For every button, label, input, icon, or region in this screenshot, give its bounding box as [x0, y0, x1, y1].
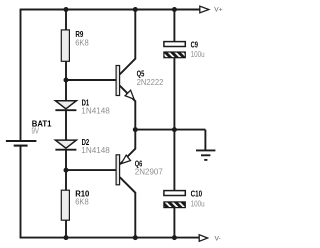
node output emitters — [133, 127, 138, 132]
svg-text:6K8: 6K8 — [75, 39, 89, 48]
svg-text:V-: V- — [215, 236, 221, 243]
wire output node — [135, 129, 205, 131]
wire D2 cathode stub — [65, 150, 67, 170]
capacitor C10 — [164, 190, 205, 209]
ground — [196, 150, 215, 160]
wire left rail lower — [20, 146, 22, 239]
wire R10 bottom stub — [65, 220, 67, 237]
svg-text:100u: 100u — [191, 200, 205, 209]
V+ terminal — [200, 6, 223, 14]
diode D1 — [55, 99, 110, 116]
svg-text:R9: R9 — [75, 30, 83, 39]
svg-text:100u: 100u — [191, 50, 205, 59]
transistor Q5 — [116, 66, 164, 100]
node Q5 base — [64, 78, 69, 83]
battery BAT1 — [6, 119, 52, 145]
wire left rail upper — [20, 9, 22, 141]
wire R10 top stub — [65, 170, 67, 190]
wire R9 top stub — [65, 10, 67, 30]
wire C10 bottom stub — [173, 208, 175, 238]
wire Q6 base — [66, 169, 116, 171]
wire Q5 base — [66, 79, 116, 81]
wire Q6 collector — [120, 177, 136, 237]
node Q6 collector bottom — [133, 235, 138, 240]
svg-text:1N4148: 1N4148 — [81, 107, 110, 116]
node R10 bottom — [64, 235, 69, 240]
svg-text:9V: 9V — [32, 126, 40, 135]
wire ground stub — [204, 130, 206, 150]
wire Q6 emitter — [120, 130, 136, 165]
svg-text:2N2907: 2N2907 — [135, 168, 164, 177]
node R9 top — [64, 7, 69, 12]
diode D2 — [55, 138, 110, 155]
svg-text:V+: V+ — [214, 7, 222, 14]
svg-text:C9: C9 — [191, 40, 199, 49]
wire V+ top rail — [21, 9, 200, 11]
capacitor C9 — [164, 40, 205, 59]
svg-text:1N4148: 1N4148 — [81, 146, 110, 155]
wire C10 top stub — [173, 130, 175, 191]
svg-text:C10: C10 — [191, 190, 203, 199]
wire D1 anode stub — [65, 80, 67, 101]
node output capacitor — [172, 127, 177, 132]
wire V- bottom rail — [21, 237, 200, 239]
node C10 bottom — [172, 235, 177, 240]
node Q6 base — [64, 168, 69, 173]
wire D1 to D2 — [65, 110, 67, 140]
transistor Q6 — [116, 155, 163, 185]
node Q5 collector top — [133, 7, 138, 12]
V- terminal — [199, 235, 221, 243]
resistor R9 — [61, 30, 89, 61]
wire C9 top stub — [173, 10, 175, 42]
wire C9 bottom stub — [173, 58, 175, 130]
resistor R10 — [61, 190, 90, 221]
wire R9 bottom stub — [65, 62, 67, 81]
wire Q5 emitter — [120, 86, 136, 130]
wire Q5 collector — [120, 10, 136, 75]
svg-text:2N2222: 2N2222 — [137, 78, 164, 87]
node C9 top — [172, 7, 177, 12]
svg-text:6K8: 6K8 — [75, 198, 89, 207]
